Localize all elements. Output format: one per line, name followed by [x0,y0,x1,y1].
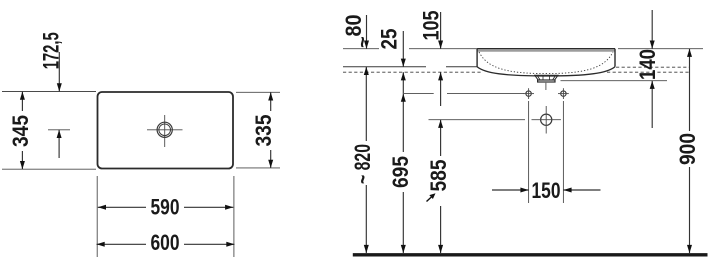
extension lines for 150 [528,101,530,203]
dimension ~80 leader [341,15,374,49]
hole centre extension line [404,93,434,95]
mounting hole left [523,88,534,99]
drain hole circle [532,106,561,134]
dimension 345 [8,92,33,170]
svg-text:25: 25 [377,29,402,50]
rim top line [477,48,615,50]
extension lines for 590/600 [96,176,98,257]
slope arrow before 585 [427,196,434,202]
drain fitting [534,75,559,82]
svg-text:150: 150 [532,178,561,203]
dimension 590 [98,195,234,220]
tap centreline below drain [545,83,547,90]
basin outline (top view) [98,92,234,169]
dimension 140 [635,10,660,128]
svg-text:900: 900 [675,133,700,165]
dimension 600 [97,230,235,255]
bottom curve [477,67,615,76]
extension line top edge [2,91,96,93]
counter top line dashed right [616,66,690,68]
lower dashed line right [607,71,690,73]
right edge [614,49,616,67]
tap hole [147,115,183,147]
drain centre extension line [429,119,526,121]
extension stub at tap-hole centre [48,129,70,131]
rim extension line right [618,48,703,50]
basin body (front view) [477,49,615,77]
172,5 lower arrow [57,130,62,158]
svg-text:590: 590 [151,195,180,220]
dimension 695 [388,94,413,254]
svg-text:172,5: 172,5 [39,32,64,69]
basin bottom extension line [561,80,668,82]
dimension 172,5 leader [39,32,64,91]
svg-text:600: 600 [151,230,180,255]
svg-text:140: 140 [635,49,660,80]
rim extension line left [343,48,379,50]
extension lines right side [236,91,280,93]
rim second line [477,50,615,52]
dimension ~820 [350,67,375,253]
dimension 335 [251,92,276,168]
lower dashed line left [343,71,482,73]
left edge [476,49,478,67]
svg-text:80: 80 [341,15,366,37]
dimension 900 [675,49,700,253]
svg-text:695: 695 [388,156,413,188]
svg-text:585: 585 [426,160,451,192]
svg-text:335: 335 [251,115,276,147]
inner bowl dotted curve [479,52,613,74]
mounting hole right [558,88,569,99]
dimension 150 [492,178,601,203]
dimension 585 [426,120,451,253]
svg-text:~: ~ [352,36,374,48]
svg-text:345: 345 [8,115,33,147]
dimension 105 leader [419,10,444,106]
extension line bottom edge [2,168,96,170]
svg-text:~ 820: ~ 820 [350,144,375,184]
counter top line (solid, left of basin) [343,66,426,68]
svg-text:105: 105 [419,10,444,40]
floor line [353,253,708,256]
dimension 25 [377,29,406,94]
